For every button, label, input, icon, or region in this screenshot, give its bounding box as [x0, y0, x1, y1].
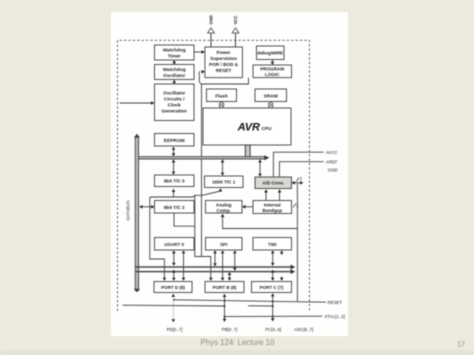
svg-text:PD[0..7]: PD[0..7] [167, 327, 183, 332]
block Watchdog Timer [155, 45, 195, 60]
block Power Supervision POR/BOD & RESET [205, 47, 243, 78]
arrows bus to 8bit T/C 0 [172, 159, 176, 175]
svg-text:ADC[6..7]: ADC[6..7] [294, 327, 313, 332]
USART to buses wires [172, 250, 185, 280]
block PORT C [252, 282, 292, 293]
block EEPROM [155, 134, 195, 147]
block AVR CPU [203, 108, 291, 145]
block Watchdog Oscillator [155, 65, 195, 80]
svg-text:VCC: VCC [233, 16, 238, 25]
arrows bus to 16bit T/C 1 [221, 159, 225, 176]
chip dashed border [118, 40, 310, 311]
svg-text:USART 0: USART 0 [164, 242, 184, 247]
svg-text:GND: GND [328, 168, 338, 173]
svg-text:Comp.: Comp. [217, 208, 231, 213]
svg-text:Power: Power [217, 50, 231, 55]
main data bus horizontal [136, 155, 269, 160]
hollow arrow SRAM-CPU [268, 102, 273, 109]
arrows EEPROM to bus [172, 147, 176, 157]
block Oscillator Circuits / Clock Generation [155, 84, 195, 121]
port bus lower [136, 269, 296, 274]
block SRAM [255, 89, 287, 102]
svg-text:Watchdog: Watchdog [163, 67, 186, 73]
svg-text:CPU: CPU [262, 126, 273, 131]
PORT C pin wire [271, 293, 275, 321]
arrows bus to A/D Conv [258, 159, 262, 177]
wire T/C1 diagonal [195, 188, 223, 256]
port bus upper [136, 265, 296, 270]
svg-text:SRAM: SRAM [264, 93, 278, 99]
svg-text:PORT D (8): PORT D (8) [161, 285, 185, 290]
svg-text:Circuits /: Circuits / [164, 97, 185, 103]
svg-text:AVR: AVR [237, 122, 260, 134]
wire bottom left horizontal [123, 304, 273, 307]
svg-text:Analog: Analog [216, 202, 232, 207]
DATABUS vertical thick [134, 134, 140, 292]
svg-text:Flash: Flash [215, 93, 228, 99]
PORT D pin wire [172, 294, 176, 323]
arrows bandgap top to ADC bottom [264, 189, 268, 200]
bottom strip [0, 350, 474, 355]
arrow debugWIRE to PROGRAM LOGIC [271, 60, 275, 66]
svg-text:PROGRAM: PROGRAM [260, 66, 284, 71]
wire AREF [279, 160, 337, 177]
block USART 0 [155, 238, 195, 251]
svg-text:debugWIRE: debugWIRE [257, 51, 283, 56]
svg-text:PORT C (7): PORT C (7) [260, 285, 284, 290]
arrow WdO to WdT [172, 60, 176, 65]
svg-text:POR / BOD &: POR / BOD & [209, 62, 239, 67]
svg-text:RESET: RESET [216, 68, 232, 73]
PORT B pin wire [223, 294, 227, 322]
VCC pin top [232, 16, 239, 47]
svg-text:8bit T/C 0: 8bit T/C 0 [164, 179, 185, 184]
block PORT B [205, 282, 244, 293]
wire RESET net into Power Supervision [199, 70, 248, 281]
svg-text:8bit T/C 2: 8bit T/C 2 [164, 205, 185, 210]
SPI to buses wires [213, 250, 236, 280]
wire XTAL bottom [225, 314, 345, 319]
svg-text:Bandgap: Bandgap [262, 208, 282, 213]
svg-text:LOGIC: LOGIC [265, 72, 280, 77]
svg-text:RESET: RESET [328, 300, 343, 305]
wire AVCC [273, 150, 337, 177]
PORT B connector wires [228, 272, 232, 281]
svg-text:Phys 124: Lecture 10: Phys 124: Lecture 10 [201, 338, 275, 347]
arrow WdT to Power Supervision [194, 50, 205, 54]
svg-text:Oscillator: Oscillator [163, 91, 185, 97]
svg-text:AVCC: AVCC [326, 150, 338, 155]
white figure panel [111, 12, 348, 336]
thick connector CPU to bus [245, 145, 250, 157]
wire XTAL into oscillator with arrow [120, 101, 155, 105]
svg-text:Generation: Generation [162, 109, 187, 115]
block Flash [207, 89, 237, 102]
svg-text:Timer: Timer [168, 54, 181, 60]
block debugWIRE [257, 46, 285, 60]
PORT C connector wires [271, 270, 284, 281]
block SPI [206, 238, 243, 251]
block Internal Bandgap [253, 201, 292, 214]
svg-text:PC[0..6]: PC[0..6] [265, 327, 281, 332]
svg-text:PB[0..7]: PB[0..7] [222, 327, 238, 332]
block A/D Conv [255, 177, 292, 189]
block 8bit T/C 0 [155, 175, 195, 187]
svg-text:GND: GND [208, 15, 213, 24]
arrow Bandgap to Analog Comp [242, 205, 253, 209]
wire T/C2 bottom [174, 213, 195, 226]
hollow arrow Flash-CPU [219, 102, 224, 109]
wire RESET bottom [174, 300, 342, 305]
svg-text:Oscillator: Oscillator [163, 73, 185, 79]
block PROGRAM LOGIC [253, 65, 292, 78]
block Analog Comp [206, 201, 243, 214]
wire analog comp bottom [221, 214, 298, 229]
block 8bit T/C 2 [155, 201, 195, 214]
svg-text:Watchdog: Watchdog [163, 48, 186, 54]
svg-text:16bit T/C 1: 16bit T/C 1 [212, 180, 236, 185]
svg-text:PORT B (8): PORT B (8) [213, 285, 237, 290]
svg-text:DATABUS: DATABUS [126, 200, 131, 220]
block TWI [253, 238, 292, 251]
tick bandgap right [293, 203, 299, 208]
svg-text:TWI: TWI [268, 242, 276, 247]
svg-text:Supervision: Supervision [210, 56, 237, 61]
svg-text:17: 17 [457, 341, 465, 348]
GND pin top [208, 15, 215, 47]
block 16bit T/C 1 [205, 176, 244, 188]
svg-text:SPI: SPI [220, 242, 227, 247]
svg-text:Clock: Clock [168, 103, 181, 109]
PORT D connector wires [172, 270, 176, 281]
svg-text:Internal: Internal [264, 202, 281, 207]
wire 8bit T/C2 to databus double arrow [139, 205, 154, 209]
arrow OSC to WdO [172, 80, 176, 84]
wire ADC pins double arrow with width 2 [292, 176, 304, 302]
TWI to buses wires [271, 250, 284, 266]
wire T/C to PORT D [150, 189, 195, 281]
svg-text:EEPROM: EEPROM [164, 138, 185, 144]
svg-text:A/D Conv.: A/D Conv. [262, 181, 284, 186]
block PORT D [154, 282, 192, 293]
svg-text:AREF: AREF [326, 160, 338, 165]
svg-text:XTAL[1..2]: XTAL[1..2] [325, 314, 345, 319]
